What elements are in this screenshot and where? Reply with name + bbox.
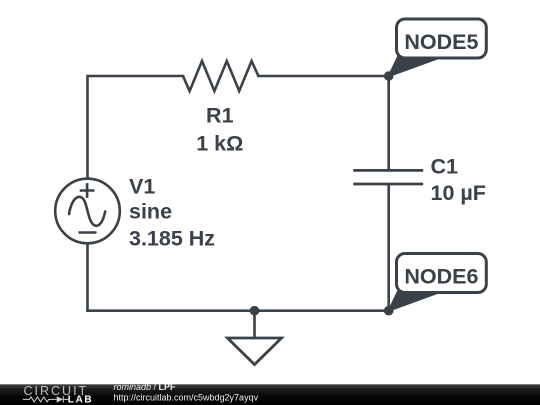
wire top-left horizontal (V1 top to R1 left) <box>88 76 184 178</box>
svg-text:rominadb / LPF: rominadb / LPF <box>114 382 177 392</box>
svg-text:NODE6: NODE6 <box>404 264 478 288</box>
svg-text:LAB: LAB <box>68 394 93 405</box>
node NODE5 callout tail <box>389 55 438 76</box>
ground <box>228 338 282 365</box>
voltage source V1 <box>55 179 120 244</box>
node NODE6 callout box <box>397 254 487 293</box>
svg-text:R1: R1 <box>206 104 234 128</box>
footer bar <box>0 384 540 405</box>
svg-text:sine: sine <box>129 200 172 224</box>
wire right vertical upper (NODE5 to C1 top plate) <box>387 76 390 170</box>
junction dot at ground <box>250 306 260 316</box>
junction dot at NODE6 <box>384 306 394 316</box>
svg-text:V1: V1 <box>129 174 155 198</box>
svg-text:1 kΩ: 1 kΩ <box>196 131 243 155</box>
svg-text:NODE5: NODE5 <box>404 30 478 54</box>
junction dot at NODE5 <box>384 71 394 81</box>
footer logo diode <box>57 396 63 402</box>
node NODE5 callout box <box>397 19 487 58</box>
wire right vertical lower (C1 bottom plate to NODE6 junction) <box>387 184 390 311</box>
node NODE6 callout tail <box>389 289 438 310</box>
svg-text:3.185 Hz: 3.185 Hz <box>129 226 215 250</box>
wire bottom horizontal <box>88 309 389 312</box>
resistor R1 <box>183 61 258 91</box>
wire V1 bottom lead <box>86 244 89 310</box>
wire R1 right to NODE5 junction <box>258 75 388 78</box>
wire ground stub <box>253 311 256 338</box>
svg-text:C1: C1 <box>431 155 459 179</box>
footer logo squiggle wire <box>23 396 69 402</box>
capacitor C1 <box>353 170 423 184</box>
svg-text:http://circuitlab.com/c5wbdg2y: http://circuitlab.com/c5wbdg2y7ayqv <box>114 392 259 402</box>
svg-text:10 µF: 10 µF <box>431 181 486 205</box>
